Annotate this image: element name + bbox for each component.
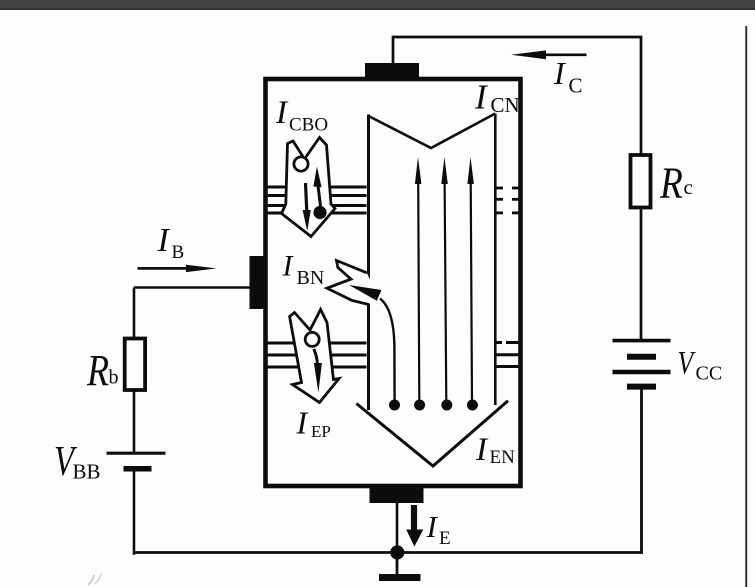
svg-text:I: I <box>426 509 439 544</box>
faint scan smudge <box>88 575 94 585</box>
I_C arrow <box>511 50 587 59</box>
svg-text:I: I <box>553 55 566 91</box>
battery Vcc <box>613 341 671 387</box>
wire Rc to Vcc <box>640 208 643 340</box>
hole (open circle) <box>294 157 308 171</box>
svg-text:V: V <box>678 346 696 382</box>
transistor body <box>266 79 521 486</box>
svg-text:I: I <box>157 222 171 259</box>
svg-text:I: I <box>282 250 295 283</box>
emitter wire <box>396 503 399 550</box>
svg-text:I: I <box>474 78 489 117</box>
svg-text:EP: EP <box>311 422 331 441</box>
wire Vcc down <box>640 389 643 554</box>
svg-text:I: I <box>296 405 309 441</box>
window title bar <box>0 0 755 9</box>
svg-text:BB: BB <box>73 460 101 484</box>
ground <box>379 558 421 578</box>
svg-text:CBO: CBO <box>289 115 328 136</box>
hole drift arrow (down) <box>314 349 318 365</box>
electron arrow 3 <box>441 157 452 411</box>
svg-text:I: I <box>475 432 489 468</box>
svg-text:E: E <box>439 528 451 549</box>
svg-text:B: B <box>172 242 185 263</box>
resistor Rc <box>631 155 651 208</box>
electron arrow 2 <box>414 157 425 411</box>
I_EP ribbon <box>290 310 339 403</box>
electron flow band (funnel) top notch <box>369 114 496 149</box>
electron dot <box>313 206 326 219</box>
page edge line <box>745 26 747 587</box>
funnel left edge (lower segment) <box>367 304 370 410</box>
I_B arrow <box>138 265 217 272</box>
hole (open circle) <box>305 332 319 346</box>
svg-text:C: C <box>569 74 583 98</box>
collector junction lines (left) <box>268 187 367 213</box>
emitter junction lines (left) <box>268 343 367 367</box>
funnel bottom V (emitter electron injection) <box>356 401 508 466</box>
collector wire <box>393 37 641 155</box>
funnel left edge (upper segment) <box>367 115 370 281</box>
bottom wire <box>134 551 643 554</box>
svg-text:BN: BN <box>297 267 325 289</box>
wire Rb to Vbb <box>133 390 136 452</box>
svg-text:CC: CC <box>696 363 723 385</box>
node E (junction dot) <box>390 545 404 559</box>
base contact <box>250 256 268 309</box>
electron drift arrow (up) <box>318 184 321 206</box>
svg-text:c: c <box>684 175 693 199</box>
battery Vbb <box>107 453 166 469</box>
svg-text:R: R <box>86 346 109 395</box>
svg-text:EN: EN <box>490 447 516 468</box>
recombination electron path (curves into base) <box>349 285 400 411</box>
I_CBO ribbon <box>282 138 336 237</box>
base wire <box>134 286 252 289</box>
svg-text:R: R <box>659 159 683 207</box>
svg-text:CN: CN <box>491 93 520 117</box>
svg-text:I: I <box>275 95 289 131</box>
wire Vbb down <box>133 470 136 555</box>
emitter junction lines (right) <box>494 343 521 367</box>
wire base down to Rb <box>133 288 136 339</box>
I_BN band (zigzag flash) <box>327 261 371 305</box>
collector junction dashes (right) <box>494 188 521 213</box>
emitter contact <box>370 487 424 504</box>
hole drift arrow (down) <box>306 183 307 212</box>
collector contact <box>365 63 419 79</box>
funnel right edge <box>494 114 497 406</box>
I_E arrow (thick) <box>406 505 423 547</box>
svg-text:b: b <box>109 367 119 389</box>
resistor Rb <box>125 339 145 391</box>
electron arrow 4 <box>467 157 478 411</box>
